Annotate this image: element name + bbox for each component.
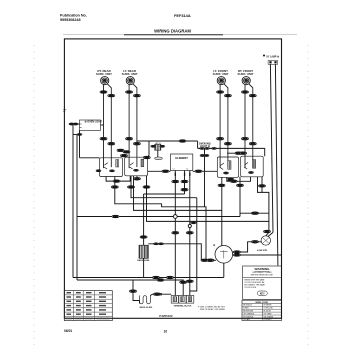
svg-text:L2: L2 bbox=[186, 169, 188, 171]
svg-text:WARNING: WARNING bbox=[255, 267, 271, 271]
svg-text:R RED: R RED bbox=[243, 308, 249, 310]
svg-text:GN GREEN: GN GREEN bbox=[264, 316, 274, 318]
svg-text:BK BLACK: BK BLACK bbox=[243, 304, 253, 307]
svg-text:KEY: KEY bbox=[260, 292, 265, 295]
svg-text:TERMINAL BLOCK: TERMINAL BLOCK bbox=[174, 304, 193, 307]
svg-text:SURF. UNIT: SURF. UNIT bbox=[96, 72, 112, 76]
svg-text:OR ORANGE: OR ORANGE bbox=[243, 312, 255, 315]
svg-text:GY GRAY: GY GRAY bbox=[264, 312, 273, 315]
svg-text:W WHITE: W WHITE bbox=[264, 305, 273, 307]
svg-text:④: ④ bbox=[213, 244, 215, 247]
svg-text:COLOR CODE: COLOR CODE bbox=[244, 287, 257, 289]
svg-text:SIDE OF BK AT LOW SPEED: SIDE OF BK AT LOW SPEED bbox=[200, 308, 226, 311]
svg-text:BROIL ELEM.: BROIL ELEM. bbox=[140, 307, 153, 309]
svg-text:SURF. UNIT: SURF. UNIT bbox=[213, 72, 229, 76]
svg-text:ELEMENT: ELEMENT bbox=[175, 156, 188, 160]
svg-text:WIRING DIAGRAM: WIRING DIAGRAM bbox=[154, 29, 191, 34]
svg-text:SY LAMP ④: SY LAMP ④ bbox=[266, 56, 279, 59]
svg-text:L1: L1 bbox=[173, 169, 175, 171]
svg-text:PR PURPLE: PR PURPLE bbox=[243, 316, 254, 318]
svg-text:06/01: 06/01 bbox=[64, 329, 72, 333]
svg-text:P4255102: P4255102 bbox=[159, 314, 173, 318]
svg-text:④ DBK CONNECTED AT HOT: ④ DBK CONNECTED AT HOT bbox=[198, 305, 226, 308]
svg-text:LATCH: LATCH bbox=[155, 142, 161, 145]
svg-text:5995308248: 5995308248 bbox=[60, 18, 81, 22]
svg-text:SURF. UNIT: SURF. UNIT bbox=[122, 72, 138, 76]
svg-text:SURF. UNIT: SURF. UNIT bbox=[238, 72, 254, 76]
svg-text:TN TAN: TN TAN bbox=[243, 318, 250, 321]
svg-text:10: 10 bbox=[164, 330, 168, 334]
svg-text:Publication No.: Publication No. bbox=[60, 14, 87, 18]
svg-text:④ OVEN LIGHT: ④ OVEN LIGHT bbox=[85, 121, 103, 124]
svg-text:BEFORE SERVICING UNIT: BEFORE SERVICING UNIT bbox=[251, 274, 274, 276]
svg-text:Y YELLOW: Y YELLOW bbox=[264, 308, 273, 310]
svg-text:BL BLUE: BL BLUE bbox=[264, 311, 272, 313]
svg-text:FEF314A: FEF314A bbox=[174, 13, 191, 18]
svg-text:BR BROWN: BR BROWN bbox=[243, 311, 254, 313]
svg-text:V VIOLET: V VIOLET bbox=[264, 319, 273, 321]
svg-text:④ BK MTR: ④ BK MTR bbox=[257, 249, 268, 252]
